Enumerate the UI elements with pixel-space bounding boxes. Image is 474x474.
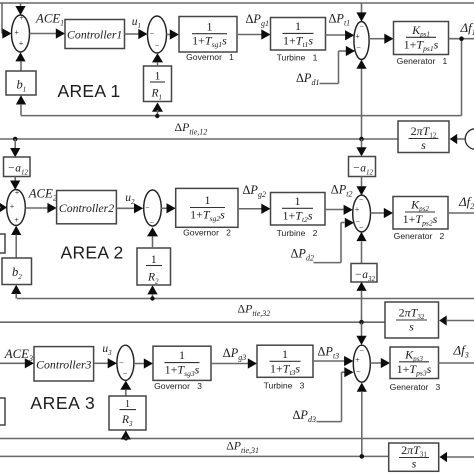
svg-text:+: + (10, 202, 15, 211)
svg-text:s: s (421, 138, 426, 152)
svg-text:Turbine 3: Turbine 3 (264, 381, 305, 391)
svg-text:−: − (123, 370, 128, 379)
svg-text:s: s (412, 457, 417, 471)
svg-text:ΔPg1: ΔPg1 (246, 12, 269, 28)
svg-text:−: − (359, 23, 364, 32)
svg-text:ΔPg2: ΔPg2 (243, 183, 266, 199)
svg-text:ΔPtie,31: ΔPtie,31 (226, 439, 259, 456)
svg-text:1: 1 (125, 399, 130, 410)
svg-text:AREA 1: AREA 1 (58, 81, 121, 101)
svg-text:1+Tps3s: 1+Tps3s (397, 362, 432, 378)
svg-text:−: − (356, 367, 361, 376)
svg-text:Governor 2: Governor 2 (183, 228, 231, 238)
svg-text:−: − (155, 42, 160, 51)
svg-text:1: 1 (282, 347, 288, 361)
svg-text:Generator 2: Generator 2 (394, 231, 445, 241)
svg-text:+: + (15, 188, 20, 197)
svg-text:−: − (150, 30, 155, 39)
svg-text:u3: u3 (102, 343, 112, 357)
svg-text:ΔPt2: ΔPt2 (331, 182, 353, 198)
svg-text:ΔPt1: ΔPt1 (329, 11, 351, 27)
svg-text:+: + (19, 14, 24, 23)
svg-text:u1: u1 (132, 16, 141, 30)
svg-text:1+Tsg1s: 1+Tsg1s (192, 34, 227, 50)
svg-text:Governor 3: Governor 3 (154, 381, 202, 391)
svg-text:Δf2: Δf2 (458, 194, 474, 211)
svg-text:1: 1 (205, 193, 211, 207)
svg-text:ΔPtie,32: ΔPtie,32 (238, 302, 271, 319)
svg-text:+: + (355, 32, 360, 41)
svg-text:1: 1 (207, 19, 213, 33)
svg-text:Turbine 2: Turbine 2 (277, 228, 318, 238)
svg-text:Δf1: Δf1 (460, 20, 474, 37)
svg-text:ΔPt3: ΔPt3 (318, 345, 340, 361)
svg-text:ACE3: ACE3 (4, 347, 33, 363)
svg-text:1+Tps2s: 1+Tps2s (403, 212, 438, 228)
svg-text:Generator 3: Generator 3 (390, 382, 441, 392)
svg-text:1+Tt3s: 1+Tt3s (270, 361, 300, 377)
svg-text:+: + (355, 356, 360, 365)
svg-text:−: − (356, 44, 361, 53)
svg-text:−: − (119, 358, 124, 367)
svg-text:1+Tt1s: 1+Tt1s (283, 33, 313, 49)
svg-text:Generator 1: Generator 1 (397, 56, 448, 66)
svg-text:1+Tsg3s: 1+Tsg3s (165, 363, 200, 379)
svg-text:ΔPtie,12: ΔPtie,12 (175, 120, 208, 137)
svg-text:ΔPd2: ΔPd2 (291, 247, 314, 263)
svg-text:ΔPg3: ΔPg3 (223, 346, 246, 362)
svg-text:−: − (145, 203, 150, 212)
svg-text:Turbine 1: Turbine 1 (277, 53, 318, 63)
svg-text:+: + (19, 39, 24, 48)
svg-text:1: 1 (179, 348, 185, 362)
svg-text:−: − (150, 218, 155, 227)
svg-text:1: 1 (295, 19, 301, 33)
svg-text:ACE2: ACE2 (28, 186, 57, 202)
svg-text:1: 1 (155, 71, 161, 83)
svg-text:1+Tt2s: 1+Tt2s (282, 208, 312, 224)
svg-text:ACE1: ACE1 (35, 12, 64, 28)
svg-text:AREA 3: AREA 3 (30, 393, 95, 413)
svg-text:1+Tsg2s: 1+Tsg2s (190, 208, 225, 224)
svg-text:u2: u2 (125, 192, 135, 206)
svg-text:+: + (14, 216, 19, 225)
svg-text:Controller1: Controller1 (67, 27, 122, 41)
svg-text:−: − (359, 223, 364, 232)
svg-text:Governor 1: Governor 1 (186, 52, 234, 62)
svg-text:1: 1 (295, 194, 301, 208)
svg-text:AREA 2: AREA 2 (61, 242, 124, 262)
svg-text:1: 1 (151, 254, 157, 266)
svg-text:ΔPd3: ΔPd3 (293, 408, 316, 424)
svg-text:s: s (409, 320, 414, 334)
svg-text:−: − (360, 346, 365, 355)
svg-text:1+Tps1s: 1+Tps1s (404, 37, 439, 53)
svg-text:−: − (359, 196, 364, 205)
svg-text:Controller3: Controller3 (36, 358, 91, 372)
svg-text:ΔPd1: ΔPd1 (296, 71, 319, 87)
svg-text:Controller2: Controller2 (59, 201, 114, 215)
svg-text:Δf3: Δf3 (453, 343, 469, 360)
svg-text:+: + (355, 205, 360, 214)
svg-text:+: + (14, 28, 19, 37)
